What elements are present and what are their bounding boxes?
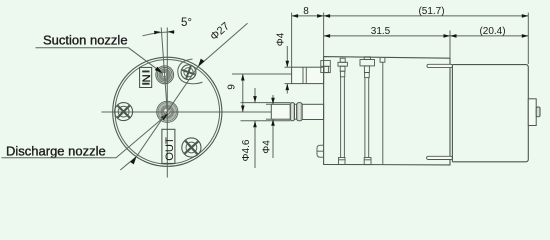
top dia-4 down arrow [286, 61, 290, 68]
svg-text:9: 9 [226, 84, 237, 90]
motor front face line [451, 65, 453, 162]
screw top-right [180, 64, 197, 81]
dimension 9 bottom arrow [241, 106, 245, 113]
center hub (discharge port) [157, 101, 178, 122]
dia-4 (bottom tube) extension lines [266, 103, 271, 105]
suction leader arrow [155, 67, 164, 75]
svg-text:N: N [141, 74, 153, 82]
section line [382, 62, 384, 165]
5-degree left arrow [154, 30, 161, 34]
dimension 9 top arrow [241, 74, 245, 81]
IN marking box [140, 67, 153, 87]
screw pocket top-right [178, 59, 203, 84]
svg-text:OUT: OUT [164, 137, 176, 161]
motor rear hub [528, 99, 536, 126]
arrow 8 right [317, 14, 324, 18]
motor bottom tab [427, 156, 453, 159]
screw left [115, 103, 133, 121]
5-degree right arrow [167, 30, 174, 34]
arrow 8 left [292, 14, 299, 18]
svg-text:5°: 5° [181, 17, 192, 29]
tie-rod strip 2 [360, 57, 375, 165]
svg-text:Discharge nozzle: Discharge nozzle [6, 144, 106, 159]
OUT marking box [162, 129, 176, 163]
dia-27 dimension line [120, 23, 247, 170]
svg-text:8: 8 [303, 6, 309, 17]
dia-27 upper arrow [196, 59, 204, 68]
arrow 20.4 right [522, 34, 529, 38]
extension line at x=450 [449, 31, 451, 58]
arrow 20.4 left [450, 34, 457, 38]
dimension 9: dim line [242, 74, 244, 112]
top tube dia-4 dim line upper [286, 46, 288, 67]
motor body [452, 65, 528, 162]
dimension 9: top extension line [232, 73, 292, 75]
top-left clip on body face [321, 61, 331, 73]
barb ring 2 [297, 103, 303, 121]
dia-4 dim line [272, 95, 274, 104]
suction leader line [36, 48, 163, 73]
svg-text:Φ4: Φ4 [261, 140, 272, 154]
dia-4 down arrow [271, 98, 275, 105]
screw bottom-right [182, 138, 201, 157]
arrow 31.5 right [444, 34, 451, 38]
discharge leader arrow [161, 112, 170, 121]
pump face inner circle [115, 60, 220, 165]
svg-text:(20.4): (20.4) [479, 26, 505, 37]
dia-4.6 down arrow [253, 96, 257, 103]
arrow 51.7 right [522, 14, 529, 18]
top edge notch [380, 57, 385, 62]
arrow 51.7 left [324, 14, 331, 18]
5-degree dimension arc [143, 32, 175, 36]
motor top tab [427, 64, 452, 67]
tie-rod strip 1 [338, 58, 347, 164]
dia-4.6 up arrow [253, 121, 257, 128]
svg-text:Φ4.6: Φ4.6 [241, 139, 252, 161]
barb ring 1 [294, 104, 297, 119]
vertical centerline [166, 28, 168, 178]
extension line at x=291.6 [291, 13, 293, 67]
suction nozzle circle [156, 66, 174, 84]
svg-text:31.5: 31.5 [371, 26, 391, 37]
svg-text:Φ4: Φ4 [276, 32, 287, 46]
arrow 31.5 left [324, 34, 331, 38]
svg-text:Suction nozzle: Suction nozzle [43, 33, 128, 48]
pump body outline [324, 57, 450, 165]
bottom-left lug on body face [317, 145, 324, 157]
dim line 8 / (51.7) [292, 15, 529, 17]
pump face outer circle [113, 57, 222, 166]
svg-text:(51.7): (51.7) [418, 6, 444, 17]
top tube dia-4 dim line lower [286, 84, 288, 94]
dia-27 lower arrow [130, 155, 138, 164]
motor rear boss [536, 107, 540, 117]
top dia-4 up arrow [286, 84, 290, 91]
dia-4.6 dim line [254, 88, 256, 103]
horizontal centerline [102, 111, 272, 113]
dia-4.6 extension lines [241, 102, 291, 104]
top tube dia-4 extension lines [285, 66, 292, 68]
5-degree tilted line [161, 28, 167, 112]
discharge tube (middle) [271, 103, 323, 121]
dim line 31.5 / (20.4) [324, 35, 529, 37]
dia-4 up arrow [271, 119, 275, 126]
extension line at x=323.6 [323, 13, 325, 57]
discharge leader line [2, 114, 169, 158]
suction tube (top) [292, 67, 324, 83]
extension line at x=528.3 [527, 13, 529, 64]
